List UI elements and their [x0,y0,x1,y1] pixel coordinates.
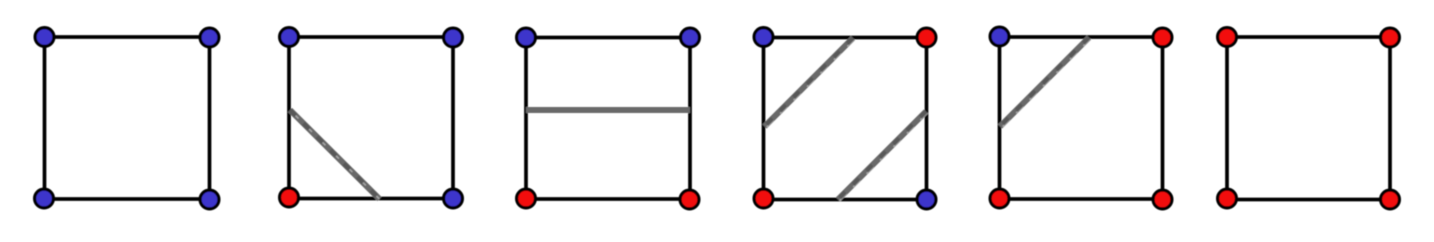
node S3 top-left (blue) [517,28,536,47]
square 4 gray diagonal bond lower [838,112,927,201]
node S1 bottom-left (blue) [35,189,54,208]
node S4 top-right (red) [917,28,936,47]
node S3 bottom-right (red) [680,190,699,209]
node S1 top-left (blue) [35,28,54,47]
node S3 top-right (blue) [681,28,700,47]
node S6 bottom-right (red) [1381,190,1400,209]
node S4 top-left (blue) [754,28,773,47]
node S1 bottom-right (blue) [200,190,219,209]
node S6 top-left (red) [1218,28,1237,47]
node S5 top-right (red) [1153,28,1172,47]
square 1 frame [45,37,210,199]
node S6 top-right (red) [1381,28,1400,47]
node S5 bottom-right (red) [1153,190,1172,209]
node S6 bottom-left (red) [1218,189,1237,208]
square 6 frame [1227,37,1390,200]
node S1 top-right (blue) [200,28,219,47]
square 2 frame [289,37,453,199]
square 3 gray horizontal bond [526,107,690,113]
node S4 bottom-left (red) [754,189,773,208]
node S5 top-left (blue) [990,27,1009,46]
node S2 bottom-left (red) [280,188,299,207]
node S2 top-right (blue) [444,28,463,47]
square 4 gray diagonal bond upper [765,38,855,128]
square 5 gray diagonal bond [1000,38,1090,128]
square 5 frame [1000,37,1163,199]
square 4 frame [764,38,927,200]
node S2 bottom-right (blue) [444,189,463,208]
node S5 bottom-left (red) [990,189,1009,208]
node S2 top-left (blue) [280,28,299,47]
node S3 bottom-left (red) [517,189,536,208]
square 2 gray diagonal bond [290,110,381,200]
square 3 frame [526,38,690,200]
node S4 bottom-right (blue) [917,190,936,209]
